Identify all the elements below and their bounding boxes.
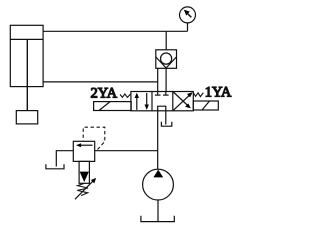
cylinder body — [10, 25, 43, 86]
svg-text:1YA: 1YA — [205, 85, 232, 101]
spring left — [120, 94, 131, 98]
valve right position cross arrow 1 — [173, 92, 193, 111]
wire: pump inlet down — [157, 200, 159, 222]
directional valve body — [131, 92, 193, 111]
solenoid 2YA box — [94, 102, 132, 111]
relief valve body — [73, 141, 94, 161]
valve center blocked port B — [163, 92, 169, 96]
pilot line (dashed) — [83, 127, 105, 149]
wire: gauge stem — [187, 23, 189, 31]
wire: valve port P down to pump — [157, 111, 159, 170]
tank at valve T port — [161, 122, 171, 127]
valve center blocked port A — [155, 92, 161, 96]
cylinder piston rod — [26, 39, 28, 110]
relief valve spring — [77, 183, 88, 195]
pump — [143, 169, 174, 200]
wire: cylinder bottom port to port A riser — [43, 81, 158, 83]
valve right position cross arrow 2 — [173, 92, 191, 109]
valve left position down arrow — [145, 93, 149, 110]
wire: relief valve left port to tank — [56, 151, 73, 167]
load block — [16, 111, 37, 124]
check valve — [156, 50, 177, 69]
tank below pump — [141, 216, 174, 222]
relief valve adjustment arrow — [75, 178, 96, 199]
pressure gauge — [180, 7, 196, 23]
wire: valve port T down — [165, 111, 167, 125]
wire: branch down to check valve — [165, 31, 167, 50]
svg-text:2YA: 2YA — [91, 85, 118, 101]
cylinder piston — [10, 38, 43, 40]
valve left position up arrow — [135, 93, 139, 110]
wire: check valve outlet to valve port B — [165, 68, 167, 91]
tank at relief valve — [46, 164, 64, 169]
spring right — [193, 93, 203, 97]
wire: cylinder top port to gauge corner — [43, 30, 187, 32]
wire: relief valve outlet to pump line — [95, 150, 158, 152]
relief valve poppet triangle — [80, 172, 89, 182]
wire: port A riser — [157, 68, 159, 91]
relief valve spring housing — [79, 161, 89, 183]
solenoid 1YA box — [193, 101, 218, 110]
valve center P-T bridge — [158, 106, 166, 111]
